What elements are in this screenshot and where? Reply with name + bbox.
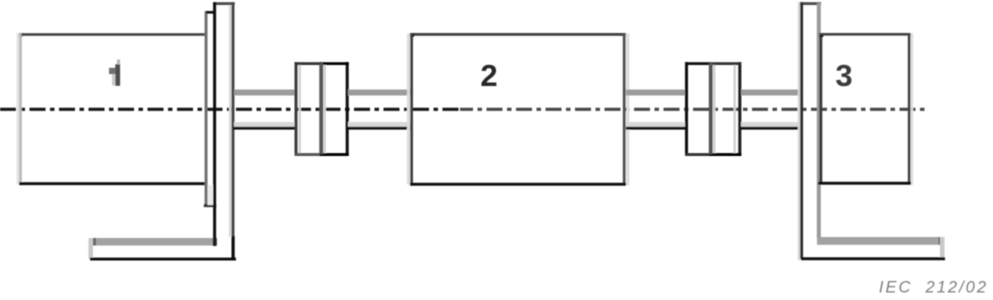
flange plate (machine 1 end shield) <box>204 11 217 207</box>
svg-text:IEC 212/02: IEC 212/02 <box>879 279 988 297</box>
machine 2 box <box>407 33 629 186</box>
shaft segment S3 <box>626 90 687 130</box>
label 2 <box>480 58 497 93</box>
machine 1 box <box>17 33 208 185</box>
left bracket foot <box>89 238 237 261</box>
shaft segment S2 <box>348 90 411 130</box>
coupling C2 <box>685 62 741 156</box>
shaft segment S4 <box>741 90 802 130</box>
machine 3 box <box>818 33 913 185</box>
right bracket foot <box>801 237 945 260</box>
coupling C1 <box>295 62 349 156</box>
shaft segment S1 <box>233 90 296 130</box>
left bracket upright <box>213 2 235 260</box>
svg-text:3: 3 <box>835 58 852 93</box>
label 3 <box>835 58 852 93</box>
caption IEC 212/02 <box>879 279 988 297</box>
label 1 <box>109 60 120 86</box>
centerline (shaft axis, dash-dot) <box>0 108 926 111</box>
right bracket upright <box>798 2 821 260</box>
svg-text:2: 2 <box>480 58 497 93</box>
